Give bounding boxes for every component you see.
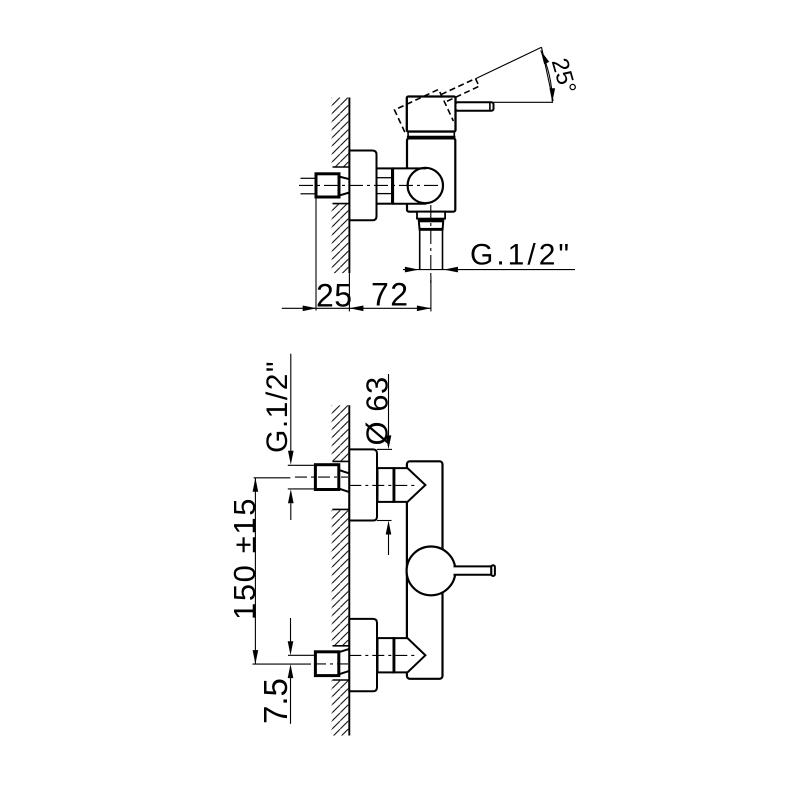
top flange escutcheon (front view) xyxy=(349,449,377,520)
bottom inlet pentagon fitting xyxy=(394,638,426,672)
dim 7.5 arrow down xyxy=(288,641,294,655)
hose nut left side xyxy=(419,219,420,231)
angle dim arrow lower xyxy=(550,88,556,102)
bottom taper cone top line xyxy=(339,649,350,652)
mixer body column (front view) xyxy=(407,461,443,679)
inlet tube white mask (side view) xyxy=(392,168,412,203)
svg-text:G.1/2": G.1/2" xyxy=(261,360,294,453)
locknut groove upper xyxy=(377,177,393,179)
lever end cap (front view) xyxy=(491,565,495,576)
dim 150 arrow up xyxy=(253,478,259,492)
wall hole top edge (side view) xyxy=(333,166,350,168)
dim 7.5 lower tail xyxy=(290,678,292,724)
G.1/2 dim arrow left xyxy=(405,267,419,273)
bottom flange escutcheon (front view) xyxy=(349,619,377,691)
dim 150 arrow down xyxy=(253,650,259,664)
centerline top nut xyxy=(295,476,348,478)
dim shared arrow at wall face xyxy=(349,306,363,312)
dia63 dim arrow up xyxy=(386,521,392,535)
centerline top flange xyxy=(349,484,415,486)
wall section hatch upper (front view) xyxy=(332,405,350,461)
handle pivot circle (front view) xyxy=(407,547,456,596)
extension line flange bottom edge xyxy=(377,520,392,522)
centerline bottom nut xyxy=(314,663,348,665)
taper cone top line nut-to-wall (side view) xyxy=(339,177,349,180)
top pentagon bold left edge xyxy=(393,468,396,502)
angle dim closing line xyxy=(542,47,554,101)
G.1/2 dim line lower tail (front view) xyxy=(290,503,292,520)
supply pipe stub upper line (side view) xyxy=(301,177,317,179)
supply pipe stub lower line (side view) xyxy=(301,193,317,195)
lever rod (front view) xyxy=(454,566,492,574)
svg-text:25: 25 xyxy=(316,278,353,314)
lever handle closed position (side view) xyxy=(456,102,494,111)
svg-text:7.5: 7.5 xyxy=(257,678,294,724)
dim line 25 and 72 xyxy=(282,307,431,309)
dim line 150pm15 xyxy=(254,478,256,664)
extension line at pipe stub xyxy=(315,197,317,311)
top taper cone bottom line xyxy=(339,489,350,493)
svg-text:72: 72 xyxy=(371,277,410,313)
svg-text:Ø 63: Ø 63 xyxy=(360,376,395,445)
lever end cap mark xyxy=(489,102,491,110)
wall hole bottom edge (side view) xyxy=(333,203,350,205)
wall face line (side view) xyxy=(348,98,350,274)
G.1/2 dim arrow right xyxy=(444,267,458,273)
extension line top nut axis xyxy=(254,477,291,479)
wall hole top edge lower fitting xyxy=(333,645,350,647)
extension line at wall face xyxy=(348,273,350,311)
mixer body (side view) xyxy=(407,138,455,211)
bottom pentagon bold left edge xyxy=(393,638,396,672)
vertical centerline outlet pipe xyxy=(430,205,432,283)
locknut (side view) xyxy=(377,168,393,203)
bottom union nut (front view) xyxy=(315,652,338,676)
hose nut right side xyxy=(442,219,445,231)
dim 25 arrow left xyxy=(303,306,317,312)
extension line at outlet axis xyxy=(430,276,432,311)
wall section hatch upper (side view) xyxy=(332,98,350,168)
top taper cone top line xyxy=(339,470,350,474)
outlet pipe left wall xyxy=(419,231,421,270)
taper cone bottom line nut-to-wall (side view) xyxy=(339,193,349,196)
extension line bottom nut axis xyxy=(253,663,312,665)
dashed head cap rotated open 25deg xyxy=(394,73,487,141)
angle dim 25deg ray xyxy=(476,47,542,78)
angle dim reference line horizontal xyxy=(494,101,554,103)
locknut groove lower xyxy=(377,193,393,195)
union nut (side view) xyxy=(316,174,339,197)
dia63 dim line lower tail xyxy=(388,535,390,556)
top inlet pentagon fitting xyxy=(394,468,426,502)
wall section hatch lower (side view) xyxy=(332,204,350,274)
angle dim arrow upper xyxy=(541,50,550,64)
extension line top nut bottom edge xyxy=(288,488,316,490)
wall hole bottom edge upper fitting xyxy=(333,508,350,510)
bottom connector sleeve xyxy=(378,638,394,672)
inlet tube bottom line xyxy=(392,203,426,205)
wall hole top edge upper fitting xyxy=(333,460,350,462)
extension line flange top edge xyxy=(377,448,392,450)
G.1/2 dim line (side view) xyxy=(403,269,575,271)
G.1/2 dim arrow up xyxy=(288,489,294,503)
wall section hatch lower (front view) xyxy=(332,680,350,736)
horizontal centerline (side view) xyxy=(299,184,440,186)
svg-text:150 ±15: 150 ±15 xyxy=(227,497,262,620)
wall face line (front view) xyxy=(348,405,350,735)
wall flange escutcheon (side view) xyxy=(349,151,376,221)
extension line bottom flange axis xyxy=(288,654,315,656)
inlet boss circle (side view) xyxy=(408,168,443,203)
outlet pipe right wall xyxy=(442,231,444,270)
head cap (side view) xyxy=(407,97,456,132)
centerline bottom flange xyxy=(349,654,415,656)
dia63 dim arrow down xyxy=(386,435,392,449)
dia63 dim line upper tail xyxy=(388,374,390,435)
hose nut bottom bold bar xyxy=(420,228,443,231)
extension line top nut top edge xyxy=(288,464,316,466)
inlet tube left edge bold xyxy=(391,168,394,203)
dim 7.5 upper tail xyxy=(290,618,292,642)
G.1/2 dim line upper tail (front view) xyxy=(290,354,292,451)
dim 7.5 arrow up xyxy=(288,664,294,678)
hose nut top bold bar xyxy=(419,219,444,223)
svg-text:G.1/2": G.1/2" xyxy=(470,239,572,272)
G.1/2 dim arrow down xyxy=(288,451,294,465)
wall section hatch middle (front view) xyxy=(332,509,350,645)
inlet tube top line xyxy=(392,167,426,169)
wall hole bottom edge lower fitting xyxy=(333,679,350,681)
top union nut (front view) xyxy=(315,465,338,490)
angle dim arc xyxy=(541,50,553,102)
cartridge ring band (side view) xyxy=(408,132,454,137)
cartridge band bold line xyxy=(407,136,456,139)
top connector sleeve xyxy=(378,468,394,502)
dim 72 arrow right xyxy=(417,306,431,312)
outlet collar (side view) xyxy=(417,212,445,219)
bottom taper cone bottom line xyxy=(339,671,350,674)
